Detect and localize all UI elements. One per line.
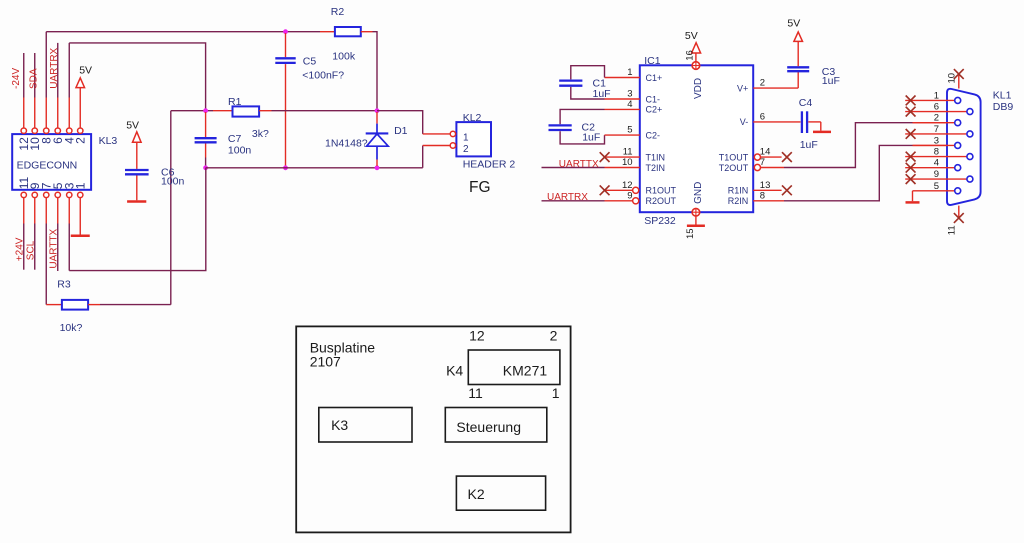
label R1 [228,96,242,108]
label IC1 [644,55,661,67]
IC1 pin number 2 [760,78,765,89]
IC1 pin 12 inversion bubble [633,187,639,193]
power 5V at C6 [126,120,141,143]
value label 100n (C7) [228,144,252,156]
wire IC1 pin 7 (T2OUT) to KL1 pin 2 [761,123,955,168]
svg-text:2: 2 [760,78,765,89]
svg-text:C4: C4 [799,97,813,109]
no-connect X at KL1 pin 6 [906,107,916,117]
value label <100nF? [302,70,344,82]
wire KL3 pin 5 stub (UARTTX) [57,198,59,271]
svg-text:1: 1 [934,90,939,101]
wire KL3 pin 6 stub (UARTRX) [57,43,59,128]
IC1 pin number 10 [622,157,633,168]
svg-text:HEADER 2: HEADER 2 [463,158,516,170]
svg-text:K2: K2 [468,486,485,502]
IC1 pin number 11 [623,147,633,158]
pin name label T2IN [646,163,666,173]
wire R2 right to D1 column [361,32,377,111]
svg-text:R2: R2 [331,6,345,18]
value label 3k? [252,128,269,140]
ground bar at IC1 pin 15 [687,225,705,228]
label Steuerung [456,419,521,435]
svg-text:SDA: SDA [28,68,39,89]
wire IC1 pin 9 (R2OUT) net UARTRX [542,200,633,202]
IC1 pin number 12 [622,180,633,191]
wire D1 junction to KL2 pin 1 [377,111,450,134]
node junction at C5 top [283,29,288,34]
connector KL3 pin number 11 [17,177,31,190]
connector KL3 pin number 4 [63,137,77,144]
no-connect X at KL1 pin 1 [906,96,916,106]
IC1 pin number 6 [760,112,765,123]
svg-text:R2OUT: R2OUT [646,196,677,206]
KL1 pin number 10 [947,73,958,84]
svg-text:1: 1 [74,182,88,189]
svg-text:5V: 5V [787,18,800,30]
net label UARTTX at IC1 [559,159,599,170]
wire D1 top stub [376,112,378,124]
wire C5 top stub [285,33,287,57]
no-connect X at R1IN [782,185,792,195]
connector KL1 pin circle 2 [955,120,961,126]
wire KL3 pin 12 stub (-24V) [23,53,25,128]
wire C2 bottom to pin 5 (C2-) [560,131,640,144]
net label -24V [11,68,22,89]
connector KL3 bottom pin circle 3 [67,192,72,197]
svg-text:14: 14 [760,147,771,158]
wire KL1 pin 8 [905,156,967,158]
svg-text:FG: FG [469,179,491,196]
wire C1 bottom to pin 3 (C1-) [571,87,640,99]
value label 1uF (C1) [593,88,611,100]
wire C3 top stub [797,41,799,66]
connector KL2 pin circle 1 [450,131,455,136]
wire C1 top loop [571,66,605,80]
KL1 pin number 5 [934,181,939,192]
wire KL1 pin 1 [905,99,955,101]
wire KL3 pin 10 stub (SDA) [34,53,36,128]
svg-text:T1OUT: T1OUT [719,152,749,162]
K4 pin number 1 [552,385,560,401]
pin name label VDD [693,78,704,99]
svg-text:3k?: 3k? [252,128,269,140]
connector KL3 pin number 8 [40,137,54,144]
connector KL1 pin circle 9 [967,176,973,182]
svg-text:2: 2 [74,137,88,144]
KL1 pin number 4 [934,158,939,169]
pin name label R1OUT [646,186,677,196]
IC1 pin number 14 [760,147,771,158]
block Busplatine 2107 outline [296,326,570,532]
wire KL1 pin 3 stub [913,144,955,146]
svg-text:5V: 5V [685,30,698,42]
KL1 pin number 6 [934,102,939,113]
svg-text:T1IN: T1IN [646,152,666,162]
label C6 [161,166,175,178]
wire KL3 pin 3 vertical [68,198,70,271]
connector KL3 bottom pin circle 7 [44,192,49,197]
IC1 pin number 16 [685,50,696,61]
no-connect X at KL1 pin 9 [906,174,916,184]
label R2 [331,6,345,18]
node junction D1 bottom [375,165,380,170]
value label 100k [332,51,356,63]
block K3 outline [319,408,412,443]
wire KL1 pin 6 [905,111,967,113]
wire R1 right segment [259,110,377,112]
net label UARTRX [49,47,60,88]
K4 pin number 12 [469,328,485,344]
connector KL3 pin number 1 [74,182,88,189]
wire C6 top stub [136,142,138,169]
svg-text:16: 16 [685,50,696,61]
svg-text:8: 8 [934,147,939,158]
connector KL3 top pin circle 4 [67,128,72,133]
wire R3 right to left vertical [88,304,171,306]
svg-text:UARTTX: UARTTX [559,159,599,170]
connector KL3 bottom pin circle 5 [55,192,60,197]
svg-text:R2IN: R2IN [728,196,749,206]
resistor R3 [62,300,88,310]
label K2 [468,486,485,502]
svg-text:10: 10 [622,157,633,168]
connector KL1 pin circle 8 [967,154,973,160]
svg-text:UARTRX: UARTRX [49,47,60,88]
svg-text:9: 9 [934,169,939,180]
IC1 pin number 9 [627,190,632,201]
no-connect X at KL1 pin 7 [906,129,916,139]
svg-text:T2OUT: T2OUT [719,163,749,173]
net label +24V [14,237,25,261]
value label 100n (C6) [161,176,185,188]
svg-text:V+: V+ [737,83,748,93]
label SP232 [644,215,676,227]
capacitor C7 [195,138,217,142]
connector KL1 pin circle 4 [955,165,961,171]
svg-text:R1OUT: R1OUT [646,186,677,196]
svg-text:DB9: DB9 [993,101,1014,113]
wire KL3 pin 4 net to R1 junction [69,43,205,111]
svg-text:100n: 100n [228,144,252,156]
svg-text:IC1: IC1 [644,55,661,67]
svg-text:KL3: KL3 [99,135,118,147]
wire VDD stub [695,53,697,62]
connector KL3 pin number 10 [28,137,42,151]
connector KL3 refdes label KL3 [99,135,118,147]
svg-text:2107: 2107 [310,354,341,370]
capacitor C4 [802,111,807,133]
wire IC1 pin 12 (R1OUT) [605,189,633,191]
K4 pin number 2 [550,328,558,344]
svg-text:UARTTX: UARTTX [49,228,60,268]
svg-text:R1IN: R1IN [728,186,749,196]
wire bottom bus horizontal [206,167,423,169]
no-connect X at R1OUT [600,185,610,195]
pin name label T1IN [646,152,666,162]
connector KL2 pin number 1 [463,132,469,143]
wire C7 bottom stub [205,144,207,168]
svg-text:2: 2 [463,144,469,155]
node junction R1 left / C7 top [203,108,208,113]
svg-text:K4: K4 [446,363,463,379]
connector KL1 pin circle 6 [967,109,973,115]
IC1 pin number 13 [760,180,771,191]
wire KL1 pin 5 to ground [913,191,955,201]
connector KL3 body [12,134,91,190]
svg-text:VDD: VDD [693,78,704,99]
svg-text:C2+: C2+ [646,105,663,115]
connector KL3 pin number 7 [40,182,54,189]
svg-text:6: 6 [934,102,939,113]
svg-text:1uF: 1uF [822,75,840,87]
label KM271 [503,363,548,379]
value label 10k? [60,322,83,334]
wire KL3 pin 9 stub (SCL) [34,198,36,270]
wire KL3 pin 1 stub to end bar [79,198,81,235]
IC1 pin number 8 [760,190,765,201]
wire R3 left stub [46,304,62,306]
svg-text:1: 1 [552,385,560,401]
pin name label V+ [737,83,748,93]
svg-text:11: 11 [946,225,957,235]
connector KL3 top pin circle 8 [44,128,49,133]
svg-text:5: 5 [934,181,939,192]
wire IC1 pin 10 (T2IN) net UARTTX [542,167,640,169]
label Busplatine [310,339,376,355]
label C7 [228,133,242,145]
svg-text:5: 5 [627,125,632,136]
KL1 pin number 9 [934,169,939,180]
svg-text:8: 8 [760,190,765,201]
svg-text:C7: C7 [228,133,242,145]
svg-text:4: 4 [627,99,632,110]
svg-text:C1+: C1+ [646,73,663,83]
svg-text:C1-: C1- [646,94,661,104]
KL1 pin number 11 [946,225,957,235]
pin name label C2- [646,130,661,140]
wire IC1 pin 11 (T1IN) [605,156,640,158]
value label 1uF (C3) [822,75,840,87]
connector KL2 body [456,122,491,156]
IC1 pin 9 inversion bubble [633,198,639,204]
svg-text:10k?: 10k? [60,322,83,334]
connector KL2 pin circle 2 [450,143,455,148]
ground bar at KL1 pin 5 [906,201,920,204]
svg-text:+24V: +24V [14,237,25,261]
svg-text:C5: C5 [303,56,317,68]
svg-text:15: 15 [685,228,696,239]
wire C6 bottom stub [136,176,138,201]
wire bottom bus to KL2 pin 2 [423,146,451,168]
KL1 pin number 3 [934,135,939,146]
pin name label T1OUT [719,152,749,162]
label R3 [57,278,71,290]
label C5 [303,56,317,68]
wire net UARTRX-row top horizontal [46,31,335,33]
connector KL3 pin number 6 [51,137,65,144]
connector KL3 top pin circle 12 [21,128,26,133]
connector KL1 pin circle 3 [955,142,961,148]
svg-text:R3: R3 [57,278,71,290]
svg-text:3: 3 [934,135,939,146]
IC1 pin number 3 [627,89,632,100]
IC1 pin 16 connection circle [692,62,700,70]
connector KL1 DB9 body [947,89,981,205]
value label 1N4148? [325,138,368,150]
wire KL1 pin 9 [905,178,967,180]
connector KL3 pin number 12 [17,137,31,151]
net label UARTTX [49,228,60,268]
svg-text:100n: 100n [161,176,185,188]
wire KL1 pin 7 [905,133,967,135]
connector KL3 bottom pin circle 11 [21,192,26,197]
label KL2 [463,112,482,124]
wire C7 top stub [205,112,207,137]
connector KL3 bottom pin circle 9 [32,192,37,197]
pin name label C2+ [646,105,663,115]
label D1 [394,125,408,137]
IC1 pin number 4 [627,99,632,110]
svg-text:EDGECONN: EDGECONN [17,159,78,171]
connector KL3 name label [17,159,78,171]
connector KL3 bottom pin circle 1 [78,192,83,197]
wire IC1 pin 13 (R1IN) [753,189,781,191]
wire KL3 pin 7 vertical to R3 [45,198,47,305]
block Steuerung outline [445,408,547,443]
svg-text:1uF: 1uF [582,132,600,144]
svg-text:12: 12 [622,180,633,191]
IC1 pin 7 inversion bubble [754,164,760,170]
open end bar at KL3 pin 1 [71,235,90,238]
svg-text:UARTRX: UARTRX [547,192,588,203]
net label UARTRX at IC1 [547,192,588,203]
KL1 pin number 1 [934,90,939,101]
pin name label R1IN [728,186,749,196]
wire KL3 pin 11 stub (+24V) [23,198,25,270]
block K4 KM271 outline [468,350,560,385]
label K3 [331,417,348,433]
block K2 outline [456,476,545,510]
IC1 pin number 1 [627,67,632,78]
node junction C7 bottom [203,165,208,170]
pin name label C1- [646,94,661,104]
svg-text:6: 6 [760,112,765,123]
svg-text:KL2: KL2 [463,112,482,124]
no-connect X at KL1 pin 8 [906,152,916,162]
svg-text:1: 1 [627,67,632,78]
net label SDA [28,68,39,89]
svg-text:100k: 100k [332,51,356,63]
pin name label R2OUT [646,196,677,206]
svg-text:T2IN: T2IN [646,163,666,173]
svg-text:GND: GND [693,182,704,204]
op-amp IC1 SP232 body [640,65,753,212]
svg-text:3: 3 [627,89,632,100]
no-connect X at T1IN [600,152,610,162]
svg-text:11: 11 [623,147,633,158]
power 5V at KL3 pin 2 [76,65,92,128]
wire KL1 pin 10 stub [958,75,960,89]
wire KL1 pin 11 stub [958,206,960,218]
wire left vertical R1 row to R3 [170,111,172,305]
svg-text:7: 7 [934,124,939,135]
label C2 [582,121,596,133]
IC1 pin number 15 [685,228,696,239]
IC1 pin number 7 [760,157,765,168]
connector KL1 pin circle 5 [955,188,961,194]
connector KL3 top pin circle 2 [78,128,83,133]
KL1 pin number 7 [934,124,939,135]
capacitor C6 [125,170,149,174]
wire R1 row left segment [171,110,233,112]
connector KL1 pin circle 7 [967,131,973,137]
pin name label R2IN [728,196,749,206]
value label 1uF (C2) [582,132,600,144]
capacitor C1 [559,81,582,86]
connector KL3 pin number 9 [28,182,42,189]
wire IC1 pin 14 (T1OUT) [761,156,782,158]
value label 1uF (C4) [800,139,818,151]
connector KL3 top pin circle 10 [32,128,37,133]
capacitor C5 [275,58,295,63]
svg-text:KM271: KM271 [503,363,548,379]
IC1 pin number 5 [627,125,632,136]
label C4 [799,97,813,109]
svg-text:SP232: SP232 [644,215,676,227]
wire IC1 pin 8 (R2IN) to KL1 pin 3 [753,145,955,200]
pin name label V- [740,117,749,127]
wire GND stub [695,216,697,225]
diode D1 [366,124,389,160]
svg-text:5V: 5V [79,65,92,77]
svg-text:1: 1 [463,132,469,143]
svg-text:SCL: SCL [25,240,36,260]
svg-text:Steuerung: Steuerung [456,419,521,435]
svg-text:K3: K3 [331,417,348,433]
connector KL3 pin number 5 [51,182,65,189]
node junction D1 top [375,108,380,113]
K4 pin number 11 [468,385,483,401]
svg-text:12: 12 [469,328,485,344]
svg-text:11: 11 [468,385,483,401]
pin name label GND [693,182,704,204]
svg-text:10: 10 [947,73,958,84]
resistor R2 [335,27,361,36]
no-connect X at KL1 pin 11 [954,213,964,223]
svg-text:13: 13 [760,180,771,191]
svg-text:V-: V- [740,117,749,127]
wire KL3 pin 4 vertical [68,43,70,128]
power 5V at IC1 VDD [685,30,701,53]
svg-text:5V: 5V [126,120,139,132]
wire KL3 pin 8 vertical [45,32,47,128]
label DB9 [993,101,1014,113]
node junction C5 bottom [283,165,288,170]
wire IC1 pin 2 (V+) to C3 [753,72,798,88]
net label SCL [25,240,36,260]
capacitor C3 [787,67,809,71]
wire IC1 pin 1 (C1+) [605,77,640,79]
connector KL3 pin number 3 [63,182,77,189]
svg-text:2: 2 [550,328,558,344]
svg-text:D1: D1 [394,125,408,137]
wire KL1 pin 4 [905,167,955,169]
label KL1 [993,90,1012,102]
svg-text:2: 2 [934,113,939,124]
no-connect X at KL1 pin 4 [906,163,916,173]
label HEADER 2 [463,158,516,170]
